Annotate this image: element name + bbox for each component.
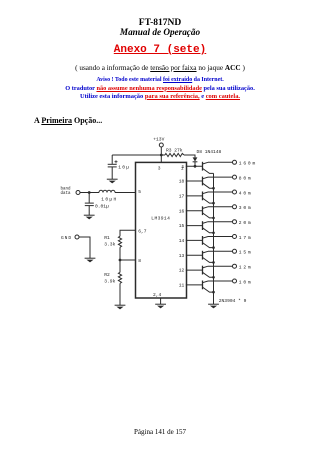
transistor Q2 2N3904 bbox=[203, 177, 214, 189]
svg-text:40m: 40m bbox=[239, 190, 253, 196]
svg-text:10µH: 10µH bbox=[101, 196, 117, 202]
wire supply left bbox=[112, 154, 165, 156]
junction band data node bbox=[88, 191, 91, 194]
+13V terminal bbox=[153, 137, 164, 155]
svg-text:LM3914: LM3914 bbox=[151, 215, 170, 221]
wire GND terminal to ground bbox=[79, 237, 90, 258]
wire base Q3 (pin 17) bbox=[186, 195, 203, 197]
transistor Q7 2N3904 bbox=[203, 251, 214, 263]
junction emitter Q4 bbox=[212, 217, 215, 220]
wire supply right bbox=[184, 155, 195, 157]
svg-text:R1: R1 bbox=[104, 235, 110, 241]
wire base Q4 (pin 16) bbox=[186, 210, 203, 212]
transistor Q6 2N3904 bbox=[203, 236, 214, 248]
wire band data node bbox=[80, 192, 99, 194]
ground below IC bbox=[155, 304, 166, 308]
terminal 40m bbox=[233, 190, 253, 196]
svg-text:80m: 80m bbox=[239, 176, 253, 182]
svg-text:1: 1 bbox=[182, 164, 185, 170]
terminal 15m bbox=[233, 249, 253, 255]
svg-text:3: 3 bbox=[158, 166, 161, 172]
svg-text:+13V: +13V bbox=[153, 137, 164, 143]
transistor Q5 2N3904 bbox=[203, 221, 214, 233]
ground below emitter rail bbox=[208, 304, 219, 308]
svg-text:R2: R2 bbox=[104, 272, 110, 278]
wire collector Q3 to terminal bbox=[208, 191, 233, 193]
junction emitter Q5 bbox=[212, 232, 215, 235]
junction +13V node bbox=[160, 154, 163, 157]
heading A Primeira Opção bbox=[34, 116, 102, 125]
ground below GND wire bbox=[85, 258, 96, 262]
svg-text:30m: 30m bbox=[239, 205, 253, 211]
svg-text:16: 16 bbox=[179, 208, 185, 214]
svg-text:17: 17 bbox=[179, 194, 185, 200]
terminal 10m bbox=[233, 279, 253, 285]
ground below 0.01µ bbox=[84, 215, 95, 219]
wire base Q6 (pin 14) bbox=[186, 239, 203, 241]
svg-text:5: 5 bbox=[138, 189, 141, 195]
wire collector Q1 to terminal bbox=[208, 161, 233, 163]
resistor R2 3.9k bbox=[104, 260, 121, 284]
junction emitter Q9 bbox=[212, 291, 215, 294]
junction R1 R2 pin8 bbox=[119, 259, 122, 262]
transistor Q9 2N3904 bbox=[203, 281, 214, 293]
svg-text:160m: 160m bbox=[239, 161, 257, 167]
svg-text:12m: 12m bbox=[239, 265, 253, 271]
wire R2 to ground bbox=[119, 283, 121, 305]
terminal 160m bbox=[233, 160, 258, 166]
svg-text:12: 12 bbox=[179, 268, 185, 274]
svg-text:20m: 20m bbox=[239, 220, 253, 226]
capacitor C1 10µ bbox=[108, 155, 130, 179]
svg-text:D8 1N4148: D8 1N4148 bbox=[197, 149, 222, 155]
ground below 10µ bbox=[107, 179, 118, 183]
aviso line 3 bbox=[0, 93, 320, 100]
op IC U1 LM3914 bbox=[136, 162, 187, 298]
svg-text:10µ: 10µ bbox=[118, 165, 130, 171]
aviso line 2 bbox=[0, 85, 320, 92]
terminal 17m bbox=[233, 235, 253, 241]
wire collector Q6 to terminal bbox=[208, 236, 233, 238]
wire collector Q2 to terminal bbox=[208, 176, 233, 178]
capacitor C2 0.01µ bbox=[85, 193, 109, 216]
transistor Q4 2N3904 bbox=[203, 206, 214, 218]
wire collector Q8 to terminal bbox=[208, 265, 233, 267]
wire R1 to junction bbox=[119, 247, 121, 260]
svg-text:10m: 10m bbox=[239, 279, 253, 285]
junction emitter Q6 bbox=[212, 246, 215, 249]
resistor R3 27k bbox=[165, 147, 184, 156]
wire junction to pin 8 bbox=[120, 259, 136, 261]
transistor Q3 2N3904 bbox=[203, 192, 214, 204]
svg-text:6,7: 6,7 bbox=[138, 228, 147, 234]
GND terminal bbox=[61, 235, 79, 241]
wire pin 3 stub bbox=[160, 155, 162, 162]
svg-text:0.01µ: 0.01µ bbox=[95, 204, 109, 210]
terminal 30m bbox=[233, 205, 253, 211]
svg-text:18: 18 bbox=[179, 179, 185, 185]
svg-text:2,4: 2,4 bbox=[153, 292, 162, 298]
svg-text:GND: GND bbox=[61, 235, 72, 241]
subtitle Manual de Operação bbox=[0, 27, 320, 37]
inductor L1 10µH bbox=[99, 190, 118, 202]
wire inductor to pin 5 bbox=[115, 192, 136, 194]
svg-text:15m: 15m bbox=[239, 250, 253, 256]
svg-text:R3 27k: R3 27k bbox=[166, 147, 183, 153]
heading Anexo 7 (sete) bbox=[0, 44, 320, 56]
wire collector Q9 to terminal bbox=[208, 280, 233, 282]
junction emitter Q8 bbox=[212, 276, 215, 279]
svg-text:13: 13 bbox=[179, 253, 185, 259]
svg-text:14: 14 bbox=[179, 238, 185, 244]
ground below R2 bbox=[115, 305, 126, 309]
wire pin 6,7 to R1 bbox=[120, 230, 136, 236]
svg-text:11: 11 bbox=[179, 283, 185, 289]
wire base Q9 (pin 11) bbox=[186, 284, 203, 286]
wire base Q1 (pin 1) bbox=[186, 165, 203, 167]
svg-text:3.3k: 3.3k bbox=[104, 241, 115, 247]
emitter rail bbox=[213, 173, 215, 304]
junction emitter Q2 bbox=[212, 187, 215, 190]
wire base Q2 (pin 18) bbox=[186, 180, 203, 182]
wire base Q5 (pin 15) bbox=[186, 225, 203, 227]
svg-text:8: 8 bbox=[138, 258, 141, 264]
terminal 20m bbox=[233, 220, 253, 226]
terminal 80m bbox=[233, 175, 253, 181]
title FT-817ND bbox=[0, 18, 320, 28]
svg-text:3.9k: 3.9k bbox=[104, 278, 115, 284]
wire base Q8 (pin 12) bbox=[186, 269, 203, 271]
junction diode cathode / Q1 base bbox=[194, 165, 197, 168]
svg-text:data: data bbox=[61, 191, 72, 196]
svg-text:2N3904 * 9: 2N3904 * 9 bbox=[219, 298, 247, 304]
wire collector Q4 to terminal bbox=[208, 206, 233, 208]
line usando a informação bbox=[0, 64, 320, 72]
wire collector Q7 to terminal bbox=[208, 250, 233, 252]
junction emitter Q3 bbox=[212, 202, 215, 205]
page number bbox=[0, 428, 320, 436]
diode D8 1N4148 bbox=[193, 149, 222, 166]
wire collector Q5 to terminal bbox=[208, 221, 233, 223]
transistor Q1 2N3904 bbox=[203, 162, 214, 174]
wire base Q7 (pin 13) bbox=[186, 254, 203, 256]
junction emitter Q7 bbox=[212, 261, 215, 264]
svg-text:15: 15 bbox=[179, 223, 185, 229]
band data terminal bbox=[61, 187, 81, 197]
aviso line 1 bbox=[0, 77, 320, 83]
transistor Q8 2N3904 bbox=[203, 266, 214, 278]
wire pins 2,4 to ground bbox=[160, 298, 162, 304]
resistor R1 3.3k bbox=[104, 235, 121, 248]
svg-text:band: band bbox=[61, 187, 72, 192]
terminal 12m bbox=[233, 264, 253, 270]
svg-text:17m: 17m bbox=[239, 235, 253, 241]
